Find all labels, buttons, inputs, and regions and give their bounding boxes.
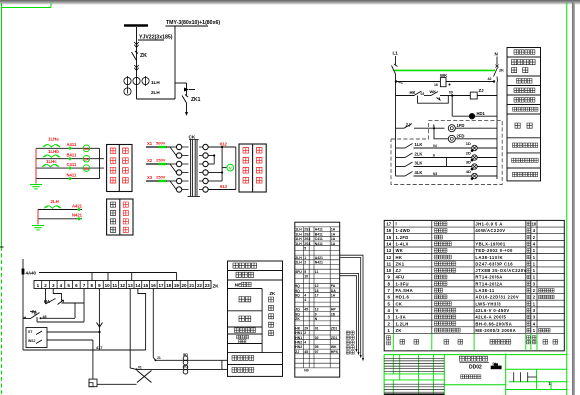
drawing frame right border green: [566, 3, 568, 395]
svg-text:9Q: 9Q: [295, 312, 300, 316]
plug contact left 3: [176, 161, 188, 166]
svg-text:1: 1: [533, 275, 536, 280]
svg-text:19: 19: [174, 283, 180, 288]
svg-text:WSJ: WSJ: [28, 339, 35, 343]
svg-text:2: 2: [304, 331, 306, 335]
svg-text:X1: X1: [147, 141, 153, 146]
wire PT input X2: [146, 158, 167, 164]
wire 2LH row A: [38, 209, 82, 211]
svg-text:250V: 250V: [156, 175, 166, 180]
svg-text:10: 10: [532, 222, 537, 227]
svg-text:2LH: 2LH: [151, 90, 160, 95]
svg-text:X2: X2: [147, 158, 153, 163]
wire terminal 14 jog drop: [138, 289, 146, 351]
svg-text:2FD: 2FD: [457, 134, 465, 139]
svg-text:4: 4: [304, 341, 306, 345]
wire right tie bus: [99, 148, 101, 178]
svg-text:JH1-0.9 5 A: JH1-0.9 5 A: [475, 222, 502, 227]
svg-text:07: 07: [315, 350, 319, 354]
svg-text:L1: L1: [393, 51, 399, 56]
drawing frame left border green: [1, 3, 3, 395]
svg-text:HD1: HD1: [477, 111, 486, 116]
wire 3LK link: [446, 158, 448, 167]
svg-text:1: 1: [388, 328, 391, 333]
svg-text:HD1.6: HD1.6: [396, 295, 410, 300]
svg-text:14: 14: [386, 241, 391, 246]
svg-text:7: 7: [83, 283, 86, 288]
sheet mini grid marks: [514, 372, 552, 386]
svg-text:11: 11: [112, 283, 117, 288]
main bus label TMY: [166, 20, 221, 26]
svg-text:10: 10: [386, 268, 391, 273]
wire phase A row: [36, 147, 100, 149]
svg-text:1: 1: [304, 256, 306, 260]
svg-text:HPX: HPX: [331, 350, 339, 354]
svg-text:3LK: 3LK: [415, 161, 423, 166]
svg-text:4A40: 4A40: [26, 271, 37, 276]
wire HK bypass jog: [418, 96, 449, 104]
cable label YJV22: [138, 35, 173, 41]
svg-text:RT14-20/6A: RT14-20/6A: [475, 275, 502, 280]
wire control source riser: [22, 259, 24, 350]
plug contact left 4: [176, 170, 188, 175]
svg-text:N3: N3: [433, 172, 437, 176]
svg-text:15: 15: [143, 283, 149, 288]
svg-text:18: 18: [166, 283, 172, 288]
plug contact right 3: [199, 161, 208, 166]
CT 2LH: [124, 88, 160, 95]
svg-text:ZK: ZK: [140, 53, 147, 59]
svg-text:TED-2002 0-+00: TED-2002 0-+00: [475, 248, 513, 253]
svg-text:4: 4: [388, 308, 391, 313]
svg-text:X3: X3: [147, 175, 153, 180]
svg-text:N421: N421: [72, 213, 83, 218]
svg-text:CK: CK: [396, 301, 403, 306]
wire left bus: [395, 82, 397, 177]
plug contact right 1: [199, 144, 208, 149]
svg-text:CK: CK: [189, 135, 196, 140]
svg-text:C411: C411: [315, 237, 323, 241]
svg-text:HK: HK: [295, 326, 300, 330]
svg-text:45: 45: [304, 308, 308, 312]
crossed-out wire X: [137, 371, 152, 383]
svg-text:18: 18: [315, 289, 319, 293]
wire terminal 9 drop with Y merge: [96, 289, 103, 351]
svg-text:ZD1: ZD1: [331, 326, 338, 330]
svg-text:5: 5: [304, 247, 306, 251]
svg-text:2A: 2A: [84, 156, 89, 161]
svg-text:A421: A421: [315, 256, 323, 260]
wire PT input X3: [146, 175, 167, 181]
ammeter 3A: [83, 165, 90, 172]
svg-text:B411: B411: [67, 152, 77, 157]
svg-text:3: 3: [533, 281, 536, 286]
svg-text:1LHa: 1LHa: [48, 137, 59, 142]
svg-text:LW5-YH3/3: LW5-YH3/3: [475, 301, 501, 306]
svg-text:14: 14: [135, 283, 141, 288]
svg-text:8: 8: [388, 281, 391, 286]
svg-text:DZ47-63/3P C16: DZ47-63/3P C16: [475, 261, 513, 266]
earthing device box: [89, 379, 137, 387]
wire tag C411: [67, 162, 77, 170]
drawing number DD02: [469, 362, 502, 371]
svg-text:1-4WD: 1-4WD: [396, 228, 411, 233]
svg-text:JTX8B 25-OX/AC220V: JTX8B 25-OX/AC220V: [475, 268, 526, 273]
wire right bus: [496, 82, 498, 180]
wire tag 4A40: [22, 269, 37, 276]
svg-text:1A: 1A: [331, 237, 336, 241]
svg-text:N0: N0: [304, 369, 308, 373]
svg-text:12: 12: [315, 284, 319, 288]
plug contact right 4: [199, 170, 208, 175]
svg-text:HK: HK: [410, 90, 416, 95]
wire terminal 7 drop: [37, 289, 84, 323]
ammeter 2A: [83, 155, 90, 162]
svg-text:4: 4: [533, 228, 536, 233]
ammeter 1A: [83, 145, 90, 152]
function box reactive current signal: [107, 199, 133, 235]
relay box WSJ contacts: [26, 328, 47, 348]
wire tag 613: [220, 184, 228, 189]
switch 3LK and lamp 3D: [396, 159, 498, 170]
ground CT circuit: [30, 185, 42, 189]
CT secondary 1LHb: [43, 149, 60, 157]
svg-text:10: 10: [105, 283, 111, 288]
svg-text:13: 13: [128, 283, 134, 288]
svg-text:5: 5: [388, 301, 391, 306]
supply N with switch 2K: [494, 52, 505, 82]
fuse mark on branch: [184, 88, 195, 92]
svg-text:45: 45: [304, 350, 308, 354]
window right edge chrome: [572, 2, 575, 395]
svg-text:N: N: [315, 317, 318, 321]
svg-text:HK: HK: [396, 255, 403, 260]
svg-text:RT14-20/2A: RT14-20/2A: [475, 281, 502, 286]
contact ZJ: [396, 123, 445, 129]
CT secondary 2LH tag: [44, 199, 61, 208]
svg-text:1: 1: [533, 268, 536, 273]
svg-text:22: 22: [197, 283, 203, 288]
ground 2LH: [32, 226, 44, 230]
svg-text:17: 17: [315, 294, 319, 298]
plug contact left 2: [176, 153, 188, 158]
svg-text:21: 21: [157, 356, 161, 360]
fan motor 2FD: [433, 127, 497, 142]
svg-text:B411: B411: [315, 232, 323, 236]
svg-text:1A: 1A: [331, 294, 336, 298]
svg-text:2LH: 2LH: [295, 261, 302, 265]
svg-text:23: 23: [205, 283, 211, 288]
svg-text:2S4: 2S4: [304, 242, 310, 246]
svg-text:250V: 250V: [156, 158, 166, 163]
svg-text:03: 03: [421, 92, 425, 96]
svg-text:ME-2000/3 2000A: ME-2000/3 2000A: [475, 328, 516, 333]
svg-text:1-3A: 1-3A: [396, 315, 406, 320]
svg-text:HN1: HN1: [295, 336, 302, 340]
svg-text:1A: 1A: [331, 242, 336, 246]
svg-text:3: 3: [388, 315, 391, 320]
drawout contact bottom: [134, 65, 138, 70]
svg-text:1-4LX: 1-4LX: [396, 241, 409, 246]
svg-text:4: 4: [60, 283, 63, 288]
svg-text:2D: 2D: [466, 150, 471, 155]
svg-text:2S3: 2S3: [304, 237, 310, 241]
CT secondary 1LHc: [42, 159, 59, 167]
svg-text:H: H: [24, 316, 27, 320]
svg-text:42: 42: [488, 77, 492, 81]
svg-text:BH-0.66-200/5A: BH-0.66-200/5A: [475, 321, 512, 326]
svg-text:1: 1: [533, 301, 536, 306]
svg-text:ZK: ZK: [396, 328, 402, 333]
svg-text:17: 17: [386, 222, 391, 227]
svg-text:3A: 3A: [84, 166, 89, 171]
frame tick mark: [0, 246, 4, 248]
relay coil ZJ: [470, 88, 497, 99]
supply L1: [392, 51, 399, 75]
svg-text:9: 9: [315, 312, 317, 316]
voltmeter V: [222, 164, 234, 171]
svg-text:10: 10: [304, 275, 308, 279]
svg-text:NE: NE: [235, 283, 242, 289]
svg-text:42L6-V 0-450V: 42L6-V 0-450V: [475, 308, 509, 313]
svg-text:1A: 1A: [331, 232, 336, 236]
wire top rail 41: [395, 74, 495, 85]
svg-text:DA: DA: [331, 289, 336, 293]
wire terminal 13 drop: [130, 289, 142, 371]
wire phase C row: [36, 167, 104, 169]
svg-text:1.2LH: 1.2LH: [396, 321, 409, 326]
svg-text:3D: 3D: [466, 159, 471, 164]
svg-text:A411: A411: [315, 228, 323, 232]
svg-text:LA38-11: LA38-11: [475, 288, 494, 293]
svg-text:ZK1: ZK1: [396, 261, 405, 266]
wire bottom rail: [23, 349, 146, 351]
svg-text:1LK: 1LK: [415, 142, 423, 147]
svg-text:612: 612: [220, 142, 228, 147]
indicator lamp pair 6D: [137, 363, 222, 374]
bill of materials table: [384, 220, 564, 350]
svg-text:40W/AC220V: 40W/AC220V: [475, 228, 505, 233]
wire tag 612: [220, 142, 228, 147]
svg-text:1: 1: [37, 283, 40, 288]
drawing frame top-left notch green: [2, 3, 52, 8]
svg-text:ZK: ZK: [269, 291, 276, 296]
svg-text:12: 12: [315, 308, 319, 312]
drawing title row: [461, 375, 481, 379]
CT 1LH: [124, 76, 160, 94]
indicator lamp pair 5D: [156, 352, 222, 365]
svg-text:42L6-A 200/5: 42L6-A 200/5: [475, 315, 506, 320]
svg-text:9Q: 9Q: [295, 284, 300, 288]
svg-text:DD02: DD02: [469, 364, 482, 370]
svg-text:ZK: ZK: [213, 283, 220, 288]
svg-text:9: 9: [388, 275, 391, 280]
wire HA common: [62, 303, 85, 318]
plug contact left 5: [176, 178, 188, 183]
svg-text:LA38-11X/K: LA38-11X/K: [475, 255, 503, 260]
svg-text:4FU: 4FU: [295, 270, 302, 274]
terminal strip ZK 1-23: [34, 281, 219, 289]
wire incoming feeder: [136, 27, 138, 99]
thermostat WK box: [434, 73, 451, 87]
fan motor 1FD: [448, 123, 497, 132]
svg-text:02: 02: [315, 336, 319, 340]
svg-text:HN2: HN2: [295, 345, 302, 349]
svg-text:JQ: JQ: [295, 308, 300, 312]
svg-text:04: 04: [433, 144, 437, 148]
svg-text:1-3FU: 1-3FU: [396, 281, 409, 286]
svg-text:613: 613: [220, 184, 228, 189]
wire tag N421: [72, 213, 83, 221]
wire 2LH row N: [38, 218, 82, 220]
svg-text:1D: 1D: [466, 141, 471, 146]
svg-text:2: 2: [533, 288, 536, 293]
svg-text:12: 12: [386, 255, 391, 260]
svg-text:6: 6: [75, 283, 78, 288]
svg-text:41: 41: [399, 80, 404, 85]
wire tag B411: [67, 152, 77, 160]
svg-text:N411: N411: [67, 172, 77, 177]
wire PT input X1: [146, 141, 167, 147]
svg-text:8: 8: [433, 153, 435, 157]
svg-text:A421: A421: [72, 203, 83, 208]
svg-text:15: 15: [386, 235, 391, 240]
svg-text:4LK: 4LK: [415, 170, 423, 175]
svg-text:1: 1: [533, 328, 536, 333]
pushbutton FA: [23, 310, 75, 321]
switch ZK1: [182, 95, 201, 104]
svg-text:V: V: [396, 308, 399, 313]
svg-text:16: 16: [434, 83, 438, 87]
svg-text:ZK: ZK: [295, 317, 300, 321]
drawout contact top: [134, 42, 138, 47]
svg-text:TMY-3(80x10)+1(80x6): TMY-3(80x10)+1(80x6): [166, 20, 220, 26]
svg-text:29: 29: [304, 326, 308, 330]
wire main bus riser: [137, 27, 176, 100]
svg-text:1LH: 1LH: [151, 80, 160, 85]
svg-text:4: 4: [304, 298, 306, 302]
svg-text:WK: WK: [331, 345, 337, 349]
svg-text:FA: FA: [32, 310, 37, 315]
svg-text:9Q: 9Q: [295, 289, 300, 293]
wire terminal 3 jog: [53, 289, 61, 301]
function box metering voltage circuit: [239, 144, 266, 192]
wire lamp return: [222, 360, 228, 369]
svg-text:12: 12: [120, 283, 126, 288]
svg-text:HP: HP: [331, 308, 336, 312]
svg-text:2: 2: [388, 321, 391, 326]
svg-text:16: 16: [386, 228, 391, 233]
svg-text:16: 16: [151, 283, 157, 288]
CT secondary 1LHa: [43, 137, 60, 148]
svg-text:5: 5: [304, 270, 306, 274]
svg-text:8: 8: [90, 283, 93, 288]
plug contact right 6: [199, 187, 208, 192]
revision table: [384, 355, 444, 395]
svg-text:11: 11: [386, 261, 391, 266]
switch 2LK and lamp 2D: [396, 150, 498, 161]
svg-text:13: 13: [386, 248, 391, 253]
wire CT common drop red: [35, 148, 37, 183]
indicator lamp HD1: [452, 96, 497, 119]
svg-text:ZD1: ZD1: [331, 336, 338, 340]
busbar incoming: [124, 24, 148, 27]
svg-text:N411: N411: [315, 242, 323, 246]
switch 4LK and lamp 4D: [396, 169, 498, 180]
svg-text:2: 2: [304, 261, 306, 265]
svg-text:1A: 1A: [84, 146, 89, 151]
wire branch to ZK1: [175, 83, 187, 95]
svg-text:FA: FA: [331, 284, 336, 288]
svg-text:A411: A411: [67, 142, 77, 147]
svg-text:AD16-22D/31 220V: AD16-22D/31 220V: [475, 295, 519, 300]
connector CK bars: [188, 135, 201, 197]
svg-text:2LH: 2LH: [295, 256, 302, 260]
svg-text:01: 01: [315, 326, 319, 330]
svg-text:ZK1: ZK1: [191, 97, 201, 103]
svg-text:YBLX-19/001: YBLX-19/001: [475, 241, 506, 246]
svg-text:4D: 4D: [466, 169, 471, 174]
svg-text:1LH: 1LH: [295, 237, 302, 241]
voltage secondary wiring: [208, 146, 236, 190]
svg-text:V: V: [229, 166, 232, 171]
svg-text:2LH: 2LH: [51, 199, 59, 204]
svg-text:3: 3: [533, 315, 536, 320]
wire neutral row: [36, 178, 100, 180]
svg-text:1: 1: [533, 255, 536, 260]
svg-text:ZJ: ZJ: [396, 268, 402, 273]
svg-text:2K: 2K: [499, 69, 504, 73]
svg-text:4: 4: [533, 241, 536, 246]
svg-text:9Q: 9Q: [295, 294, 300, 298]
svg-text:1FD: 1FD: [457, 123, 465, 128]
wire terminal 2 drop + HA selector: [44, 289, 64, 305]
svg-text:4FU: 4FU: [396, 275, 405, 280]
title text low-voltage panel: [460, 356, 490, 362]
svg-text:7: 7: [388, 288, 391, 293]
switch 1LK and lamp 1D: [396, 141, 498, 152]
svg-text:05: 05: [315, 345, 319, 349]
svg-text:C411: C411: [67, 162, 77, 167]
svg-text:WK: WK: [396, 248, 404, 253]
svg-text:FA.SHA: FA.SHA: [396, 288, 413, 293]
plug contact left 1: [176, 144, 188, 149]
svg-text:5: 5: [67, 283, 70, 288]
svg-text:HA: HA: [44, 299, 50, 304]
switch HK row: [396, 89, 471, 100]
wire 2LH common drop red: [37, 210, 39, 225]
svg-text:4: 4: [304, 294, 306, 298]
wire terminal 16 drop: [153, 289, 161, 362]
svg-text:09: 09: [449, 91, 453, 95]
svg-text:ST: ST: [28, 330, 33, 334]
svg-text:HN1: HN1: [295, 331, 302, 335]
terminal assignment table: [295, 222, 340, 377]
svg-text:ZJ: ZJ: [295, 350, 299, 354]
wire to earthing box: [92, 340, 94, 379]
wire tag A421: [72, 203, 83, 211]
svg-text:17: 17: [158, 283, 164, 288]
window top chrome bar: [0, 0, 580, 5]
wire jogs to plug terminals: [166, 147, 176, 190]
svg-text:2: 2: [533, 235, 536, 240]
svg-text:4: 4: [533, 321, 536, 326]
wire upper distribution: [39, 273, 177, 281]
wire ZK1 down with arrow: [185, 103, 188, 116]
svg-text:3: 3: [52, 283, 55, 288]
plug contact right 5: [199, 178, 208, 183]
heater legend table: [507, 48, 541, 181]
